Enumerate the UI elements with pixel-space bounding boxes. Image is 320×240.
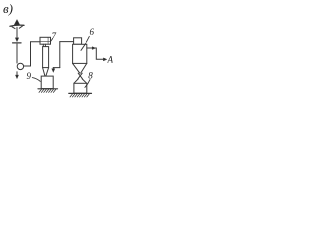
ground line under 9: [38, 88, 58, 90]
svg-text:9: 9: [27, 71, 32, 81]
downcomer wire: [59, 42, 61, 68]
vent cap left flare: [12, 27, 15, 29]
svg-text:8: 8: [88, 71, 93, 81]
wire to collector 9: [53, 67, 60, 69]
pipe break tick: [13, 42, 21, 44]
pump 4: [17, 63, 23, 69]
wire to apparatus 7: [31, 41, 41, 43]
riser wire: [30, 42, 32, 66]
cyclone 6 inlet box: [74, 38, 82, 45]
collector 9 box: [41, 76, 53, 89]
cyclone inlet diagonal: [81, 43, 86, 50]
receiver 8 roof: [74, 79, 87, 83]
vent cap right flare: [19, 26, 22, 28]
vent stack deflector cap: [10, 25, 24, 26]
svg-text:в): в): [3, 1, 13, 16]
down arrowhead on pipe: [15, 38, 18, 42]
flapper valve X: [78, 73, 82, 79]
mid-pipe arrowhead: [92, 47, 95, 50]
pump outlet wire: [24, 65, 31, 67]
leader for 7: [51, 39, 53, 42]
leader for 6: [86, 36, 89, 42]
column (scrubber) body: [43, 47, 49, 68]
ground hatch under 9: [39, 89, 56, 92]
svg-text:6: 6: [90, 27, 95, 37]
ground line under 8: [69, 92, 92, 94]
barometric pipe wire: [16, 44, 18, 63]
receiver 8 box: [74, 83, 87, 93]
cyclone outlet wire: [87, 48, 105, 59]
leader for 8: [85, 80, 90, 88]
apparatus 7 box: [40, 37, 51, 44]
stub box7 to column: [43, 44, 45, 46]
vent pipe wire: [16, 27, 18, 37]
vent stack up arrow: [14, 20, 19, 25]
cyclone 6 body: [73, 44, 87, 63]
column cone: [43, 68, 49, 76]
ground hatch under 8: [70, 94, 89, 97]
leader for 9: [32, 78, 40, 82]
pump drain arrow: [16, 72, 18, 76]
apparatus 7 end plate: [47, 38, 49, 44]
arrow into collector 9: [52, 68, 54, 70]
cyclone cone: [73, 63, 87, 73]
overhead wire to cyclone: [60, 41, 74, 43]
svg-text:А: А: [107, 55, 114, 65]
apparatus 7 inner line: [40, 41, 50, 43]
arrowhead to A: [103, 58, 106, 61]
